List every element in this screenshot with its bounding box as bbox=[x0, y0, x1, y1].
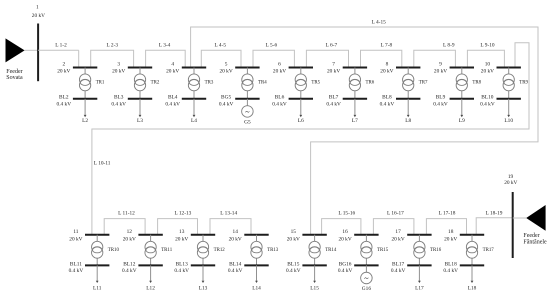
wire L 12-13 bbox=[158, 211, 198, 235]
wire L 1-2 bbox=[38, 43, 79, 68]
node 1 (20 kV bus, Sovata) bbox=[32, 5, 45, 82]
svg-text:0.4 kV: 0.4 kV bbox=[111, 101, 126, 107]
svg-text:TR12: TR12 bbox=[214, 248, 226, 253]
node BL15 (0.4 kV bus) bbox=[286, 262, 327, 274]
svg-text:L 10-11: L 10-11 bbox=[94, 160, 111, 166]
svg-text:0.4 kV: 0.4 kV bbox=[219, 101, 234, 107]
svg-text:L17: L17 bbox=[415, 286, 424, 292]
transformer TR8 bbox=[456, 74, 481, 91]
svg-text:L18: L18 bbox=[468, 286, 477, 292]
transformer TR2 bbox=[134, 74, 159, 91]
svg-text:20 kV: 20 kV bbox=[273, 69, 286, 75]
node 7 (20 kV bus) bbox=[327, 62, 367, 75]
node 13 (20 kV bus) bbox=[175, 229, 215, 243]
node 14 (20 kV bus) bbox=[229, 229, 269, 243]
svg-text:9: 9 bbox=[439, 62, 442, 68]
load arrow L18 bbox=[468, 265, 477, 291]
wire L 8-9 bbox=[414, 43, 456, 68]
svg-text:0.4 kV: 0.4 kV bbox=[433, 101, 448, 107]
load arrow L6 bbox=[298, 99, 304, 124]
svg-text:20 kV: 20 kV bbox=[112, 69, 125, 75]
load arrow L4 bbox=[191, 99, 197, 124]
transformer TR6 bbox=[349, 74, 374, 91]
svg-text:BL10: BL10 bbox=[481, 94, 494, 100]
wire bus 10 to BL10 (through TR9) bbox=[508, 68, 510, 99]
svg-text:L 18-19: L 18-19 bbox=[486, 211, 503, 217]
wire L 4-15 bbox=[191, 20, 538, 235]
transformer TR3 bbox=[188, 74, 213, 91]
node BL13 (0.4 kV bus) bbox=[174, 262, 215, 274]
svg-text:TR11: TR11 bbox=[161, 248, 173, 253]
svg-text:20 kV: 20 kV bbox=[504, 180, 517, 186]
svg-text:L 15-16: L 15-16 bbox=[338, 211, 355, 217]
svg-text:BL8: BL8 bbox=[382, 94, 392, 100]
node 9 (20 kV bus) bbox=[434, 62, 474, 75]
svg-text:0.4 kV: 0.4 kV bbox=[480, 101, 495, 107]
load arrow L7 bbox=[352, 99, 358, 124]
node 4 (20 kV bus) bbox=[166, 62, 206, 75]
svg-text:G16: G16 bbox=[362, 286, 372, 292]
svg-text:~: ~ bbox=[245, 108, 250, 117]
node 11 (20 kV bus) bbox=[69, 229, 109, 243]
svg-text:13: 13 bbox=[179, 229, 185, 235]
svg-text:BL14: BL14 bbox=[229, 262, 242, 268]
svg-text:20 kV: 20 kV bbox=[57, 69, 70, 75]
svg-text:20 kV: 20 kV bbox=[175, 237, 188, 243]
svg-text:20 kV: 20 kV bbox=[327, 69, 340, 75]
wire bus 15 to BL15 (through TR14) bbox=[314, 235, 316, 266]
load arrow L13 bbox=[199, 265, 208, 291]
svg-text:TR1: TR1 bbox=[96, 80, 105, 85]
wire bus 5 to BG5 (through TR4) bbox=[246, 68, 248, 99]
svg-text:20 kV: 20 kV bbox=[123, 237, 136, 243]
svg-text:TR2: TR2 bbox=[151, 80, 160, 85]
svg-text:BL4: BL4 bbox=[168, 94, 178, 100]
svg-text:L4: L4 bbox=[191, 118, 197, 124]
load arrow L9 bbox=[459, 99, 465, 124]
svg-text:L 7-8: L 7-8 bbox=[381, 43, 393, 49]
svg-text:0.4 kV: 0.4 kV bbox=[326, 101, 341, 107]
node BL8 (0.4 kV bus) bbox=[380, 94, 421, 107]
svg-text:L 5-6: L 5-6 bbox=[266, 43, 278, 49]
wire L 6-7 bbox=[306, 43, 348, 68]
svg-text:20 kV: 20 kV bbox=[391, 237, 404, 243]
svg-text:20 kV: 20 kV bbox=[219, 69, 232, 75]
transformer TR17 bbox=[466, 241, 494, 258]
svg-text:L12: L12 bbox=[146, 286, 155, 292]
svg-text:TR8: TR8 bbox=[472, 80, 481, 85]
load arrow L10 bbox=[504, 99, 513, 124]
node BL3 (0.4 kV bus) bbox=[111, 94, 152, 107]
svg-text:0.4 kV: 0.4 kV bbox=[272, 101, 287, 107]
wire bus 3 to BL3 (through TR2) bbox=[139, 68, 141, 99]
transformer TR7 bbox=[403, 74, 428, 91]
node 12 (20 kV bus) bbox=[123, 229, 163, 243]
svg-text:L 6-7: L 6-7 bbox=[326, 43, 338, 49]
wire bus 2 to BL2 (through TR1) bbox=[84, 68, 86, 99]
svg-text:6: 6 bbox=[278, 62, 281, 68]
svg-text:L 4-5: L 4-5 bbox=[215, 43, 227, 49]
svg-text:BL6: BL6 bbox=[275, 94, 285, 100]
node BG5 (0.4 kV bus) bbox=[219, 94, 260, 107]
svg-text:TR4: TR4 bbox=[258, 80, 267, 85]
svg-text:Fântânele: Fântânele bbox=[523, 239, 547, 245]
node 18 (20 kV bus) bbox=[444, 229, 484, 243]
transformer TR16 bbox=[414, 241, 442, 258]
svg-text:L 17-18: L 17-18 bbox=[439, 211, 456, 217]
wire L 7-8 bbox=[361, 43, 402, 68]
wire bus 14 to BL14 (through TR13) bbox=[256, 235, 258, 266]
svg-text:20 kV: 20 kV bbox=[434, 69, 447, 75]
wire L 5-6 bbox=[253, 43, 294, 68]
wire bus 7 to BL7 (through TR6) bbox=[354, 68, 356, 99]
svg-text:TR14: TR14 bbox=[325, 248, 337, 253]
svg-text:TR17: TR17 bbox=[483, 248, 495, 253]
svg-text:20 kV: 20 kV bbox=[481, 69, 494, 75]
svg-text:TR15: TR15 bbox=[377, 248, 389, 253]
node BL10 (0.4 kV bus) bbox=[480, 94, 521, 107]
transformer TR1 bbox=[79, 74, 104, 91]
svg-text:L 16-17: L 16-17 bbox=[387, 211, 404, 217]
node 17 (20 kV bus) bbox=[391, 229, 431, 243]
wire bus 13 to BL13 (through TR12) bbox=[202, 235, 204, 266]
node 5 (20 kV bus) bbox=[219, 62, 259, 75]
wire L 11-12 bbox=[104, 211, 145, 235]
svg-text:20 kV: 20 kV bbox=[69, 237, 82, 243]
load arrow L15 bbox=[310, 265, 319, 291]
svg-text:0.4 kV: 0.4 kV bbox=[443, 268, 458, 274]
svg-text:0.4 kV: 0.4 kV bbox=[391, 268, 406, 274]
svg-text:17: 17 bbox=[395, 229, 401, 235]
svg-text:L2: L2 bbox=[82, 118, 88, 124]
svg-text:0.4 kV: 0.4 kV bbox=[122, 268, 137, 274]
transformer TR15 bbox=[361, 241, 389, 258]
feeder Sovata bbox=[6, 38, 39, 81]
node 3 (20 kV bus) bbox=[112, 62, 152, 75]
node BL4 (0.4 kV bus) bbox=[165, 94, 206, 107]
svg-text:16: 16 bbox=[342, 229, 348, 235]
load arrow L14 bbox=[252, 265, 261, 291]
node 19 (20 kV bus, Fantanele) bbox=[504, 174, 517, 258]
svg-text:TR10: TR10 bbox=[108, 248, 120, 253]
svg-text:BL2: BL2 bbox=[59, 94, 69, 100]
wire L 2-3 bbox=[91, 43, 134, 68]
svg-text:L13: L13 bbox=[199, 286, 208, 292]
svg-text:BL12: BL12 bbox=[123, 262, 136, 268]
svg-text:14: 14 bbox=[233, 229, 239, 235]
transformer TR10 bbox=[92, 241, 120, 258]
svg-text:BG5: BG5 bbox=[221, 94, 231, 100]
svg-text:L 12-13: L 12-13 bbox=[174, 211, 191, 217]
svg-text:Feeder: Feeder bbox=[523, 233, 539, 239]
svg-text:20 kV: 20 kV bbox=[32, 13, 45, 19]
svg-text:L 4-15: L 4-15 bbox=[372, 20, 387, 26]
load arrow L17 bbox=[415, 265, 424, 291]
svg-text:20 kV: 20 kV bbox=[380, 69, 393, 75]
svg-text:TR5: TR5 bbox=[311, 80, 320, 85]
svg-text:20 kV: 20 kV bbox=[229, 237, 242, 243]
svg-text:1: 1 bbox=[36, 5, 39, 11]
svg-text:8: 8 bbox=[386, 62, 389, 68]
svg-text:L8: L8 bbox=[405, 118, 411, 124]
wire bus 8 to BL8 (through TR7) bbox=[407, 68, 409, 99]
svg-text:TR13: TR13 bbox=[267, 248, 279, 253]
transformer TR13 bbox=[251, 241, 279, 258]
node BL7 (0.4 kV bus) bbox=[326, 94, 367, 107]
node 6 (20 kV bus) bbox=[273, 62, 313, 75]
svg-text:0.4 kV: 0.4 kV bbox=[174, 268, 189, 274]
svg-text:0.4 kV: 0.4 kV bbox=[69, 268, 84, 274]
node BL9 (0.4 kV bus) bbox=[433, 94, 474, 107]
node BL17 (0.4 kV bus) bbox=[391, 262, 432, 274]
wire L 10-11 bbox=[92, 43, 529, 235]
svg-text:15: 15 bbox=[291, 229, 297, 235]
svg-text:5: 5 bbox=[225, 62, 228, 68]
load arrow L11 bbox=[93, 265, 102, 291]
svg-text:3: 3 bbox=[117, 62, 120, 68]
svg-text:BL18: BL18 bbox=[445, 262, 458, 268]
svg-text:0.4 kV: 0.4 kV bbox=[228, 268, 243, 274]
svg-text:20 kV: 20 kV bbox=[444, 237, 457, 243]
svg-text:BL9: BL9 bbox=[436, 94, 446, 100]
node 10 (20 kV bus) bbox=[481, 62, 521, 75]
svg-text:Feeder: Feeder bbox=[6, 69, 22, 75]
svg-text:L 2-3: L 2-3 bbox=[107, 43, 119, 49]
load arrow L3 bbox=[137, 99, 143, 124]
wire bus 17 to BL17 (through TR16) bbox=[418, 235, 420, 266]
wire bus 12 to BL12 (through TR11) bbox=[150, 235, 152, 266]
node 8 (20 kV bus) bbox=[380, 62, 420, 75]
svg-text:BL7: BL7 bbox=[329, 94, 339, 100]
svg-text:G5: G5 bbox=[244, 119, 251, 125]
svg-text:11: 11 bbox=[73, 229, 78, 235]
svg-text:TR16: TR16 bbox=[430, 248, 442, 253]
svg-text:L10: L10 bbox=[504, 118, 513, 124]
svg-text:7: 7 bbox=[332, 62, 335, 68]
node BL2 (0.4 kV bus) bbox=[57, 94, 98, 107]
wire bus 4 to BL4 (through TR3) bbox=[193, 68, 195, 99]
node BL12 (0.4 kV bus) bbox=[122, 262, 163, 274]
svg-text:BL13: BL13 bbox=[176, 262, 189, 268]
svg-text:BL3: BL3 bbox=[114, 94, 124, 100]
transformer TR11 bbox=[145, 241, 173, 258]
wire L 18-19 bbox=[476, 211, 513, 235]
wire L 16-17 bbox=[373, 211, 414, 235]
wire L 4-5 bbox=[201, 43, 241, 68]
svg-text:L11: L11 bbox=[93, 286, 102, 292]
svg-text:L3: L3 bbox=[137, 118, 143, 124]
generator G16 bbox=[361, 265, 373, 292]
svg-text:0.4 kV: 0.4 kV bbox=[380, 101, 395, 107]
load arrow L2 bbox=[82, 99, 88, 124]
svg-text:Sovata: Sovata bbox=[6, 75, 23, 81]
load arrow L12 bbox=[146, 265, 155, 291]
svg-text:L 8-9: L 8-9 bbox=[443, 43, 455, 49]
svg-text:4: 4 bbox=[171, 62, 174, 68]
wire bus 18 to BL18 (through TR17) bbox=[471, 235, 473, 266]
svg-text:TR6: TR6 bbox=[366, 80, 375, 85]
transformer TR4 bbox=[242, 74, 267, 91]
wire bus 11 to BL11 (through TR10) bbox=[96, 235, 98, 266]
svg-text:~: ~ bbox=[364, 274, 369, 283]
node BL18 (0.4 kV bus) bbox=[443, 262, 484, 274]
node 15 (20 kV bus) bbox=[287, 229, 327, 243]
wire bus 16 to BG16 (through TR15) bbox=[365, 235, 367, 266]
svg-text:BL15: BL15 bbox=[287, 262, 300, 268]
svg-text:BG16: BG16 bbox=[339, 262, 352, 268]
svg-text:L9: L9 bbox=[459, 118, 465, 124]
svg-text:20 kV: 20 kV bbox=[287, 237, 300, 243]
svg-text:L15: L15 bbox=[310, 286, 319, 292]
svg-text:12: 12 bbox=[127, 229, 133, 235]
svg-text:TR9: TR9 bbox=[519, 80, 528, 85]
svg-text:TR3: TR3 bbox=[205, 80, 214, 85]
svg-text:TR7: TR7 bbox=[419, 80, 428, 85]
svg-text:L 11-12: L 11-12 bbox=[118, 211, 135, 217]
node 16 (20 kV bus) bbox=[338, 229, 378, 243]
svg-text:2: 2 bbox=[62, 62, 65, 68]
svg-text:0.4 kV: 0.4 kV bbox=[165, 101, 180, 107]
svg-text:L6: L6 bbox=[298, 118, 304, 124]
transformer TR14 bbox=[309, 241, 337, 258]
svg-text:0.4 kV: 0.4 kV bbox=[286, 268, 301, 274]
transformer TR5 bbox=[295, 74, 320, 91]
wire L 3-4 bbox=[146, 43, 186, 68]
svg-text:0.4 kV: 0.4 kV bbox=[57, 101, 72, 107]
node BG16 (0.4 kV bus) bbox=[338, 262, 379, 274]
svg-text:BL11: BL11 bbox=[70, 262, 82, 268]
feeder Fantanele bbox=[513, 205, 547, 245]
svg-text:20 kV: 20 kV bbox=[338, 237, 351, 243]
node BL6 (0.4 kV bus) bbox=[272, 94, 313, 107]
node BL14 (0.4 kV bus) bbox=[228, 262, 269, 274]
wire L 9-10 bbox=[467, 43, 504, 68]
generator G5 bbox=[242, 99, 254, 126]
wire bus 9 to BL9 (through TR8) bbox=[461, 68, 463, 99]
transformer TR12 bbox=[197, 241, 225, 258]
wire L 13-14 bbox=[210, 211, 251, 235]
svg-text:L 13-14: L 13-14 bbox=[220, 211, 237, 217]
transformer TR9 bbox=[503, 74, 528, 91]
svg-text:20 kV: 20 kV bbox=[166, 69, 179, 75]
node BL11 (0.4 kV bus) bbox=[69, 262, 110, 274]
wire L 15-16 bbox=[322, 211, 361, 235]
svg-text:0.4 kV: 0.4 kV bbox=[338, 268, 353, 274]
svg-text:L 1-2: L 1-2 bbox=[55, 43, 67, 49]
svg-text:10: 10 bbox=[485, 62, 491, 68]
wire L 17-18 bbox=[426, 211, 466, 235]
svg-text:L7: L7 bbox=[352, 118, 358, 124]
svg-text:L14: L14 bbox=[252, 286, 261, 292]
svg-text:18: 18 bbox=[448, 229, 454, 235]
svg-text:BL17: BL17 bbox=[392, 262, 405, 268]
svg-text:L 3-4: L 3-4 bbox=[159, 43, 171, 49]
svg-text:L 9-10: L 9-10 bbox=[480, 43, 495, 49]
node 2 (20 kV bus) bbox=[57, 62, 97, 75]
wire bus 6 to BL6 (through TR5) bbox=[300, 68, 302, 99]
load arrow L8 bbox=[405, 99, 411, 124]
